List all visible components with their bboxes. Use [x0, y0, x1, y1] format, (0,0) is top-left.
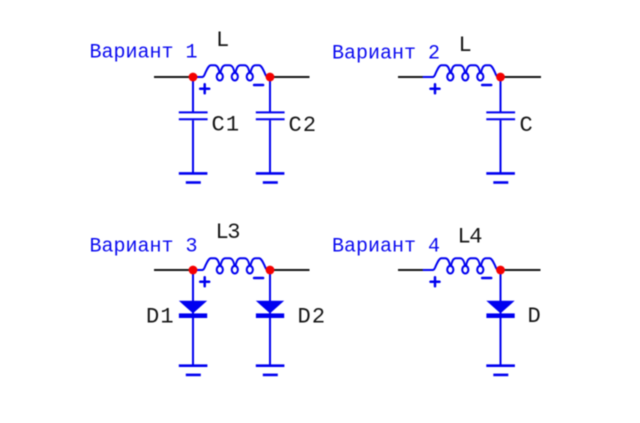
wire left black V4 — [398, 269, 424, 271]
diode D with ground — [486, 270, 515, 375]
node dot V2 — [496, 73, 505, 82]
inductor L4 coil — [424, 258, 501, 273]
svg-text:C2: C2 — [289, 113, 318, 138]
svg-text:L: L — [459, 33, 473, 58]
wire right black V2 — [501, 76, 542, 78]
svg-text:L4: L4 — [458, 225, 483, 250]
wire left black V1 — [154, 76, 193, 78]
polarity plus V1 — [200, 84, 209, 93]
capacitor C with ground — [486, 77, 515, 183]
polarity plus V2 — [431, 84, 440, 93]
svg-text:L3: L3 — [216, 220, 240, 245]
node dot right V1 — [266, 73, 275, 82]
polarity minus V2 — [482, 84, 491, 87]
svg-text:Вариант 2: Вариант 2 — [332, 42, 440, 65]
inductor L coil V2 — [424, 65, 501, 80]
wire left black V3 — [154, 269, 193, 271]
wire right black V3 — [270, 269, 310, 271]
svg-text:D: D — [528, 304, 542, 329]
capacitor C2 with ground — [256, 77, 285, 183]
polarity minus V4 — [482, 277, 491, 280]
inductor L3 coil — [193, 258, 270, 273]
wire left black V2 — [398, 76, 424, 78]
polarity plus V4 — [431, 277, 440, 286]
diode D1 with ground — [179, 270, 208, 375]
polarity minus V3 — [254, 277, 263, 280]
wire right black V1 — [270, 76, 310, 78]
wire right black V4 — [501, 269, 541, 271]
svg-text:C1: C1 — [212, 113, 241, 138]
svg-text:L: L — [216, 28, 230, 53]
node dot left V3 — [189, 266, 198, 275]
svg-text:D1: D1 — [146, 305, 175, 330]
node dot left V1 — [189, 73, 198, 82]
svg-text:Вариант 4: Вариант 4 — [332, 235, 440, 258]
svg-text:D2: D2 — [298, 305, 327, 330]
node dot right V3 — [266, 266, 275, 275]
svg-text:C: C — [520, 113, 534, 138]
svg-text:Вариант 3: Вариант 3 — [90, 236, 198, 259]
polarity minus V1 — [254, 84, 263, 87]
node dot V4 — [496, 266, 505, 275]
inductor L coil V1 — [193, 65, 270, 80]
svg-text:Вариант 1: Вариант 1 — [90, 42, 198, 65]
polarity plus V3 — [200, 277, 209, 286]
capacitor C1 with ground — [179, 77, 208, 183]
diode D2 with ground — [256, 270, 285, 375]
